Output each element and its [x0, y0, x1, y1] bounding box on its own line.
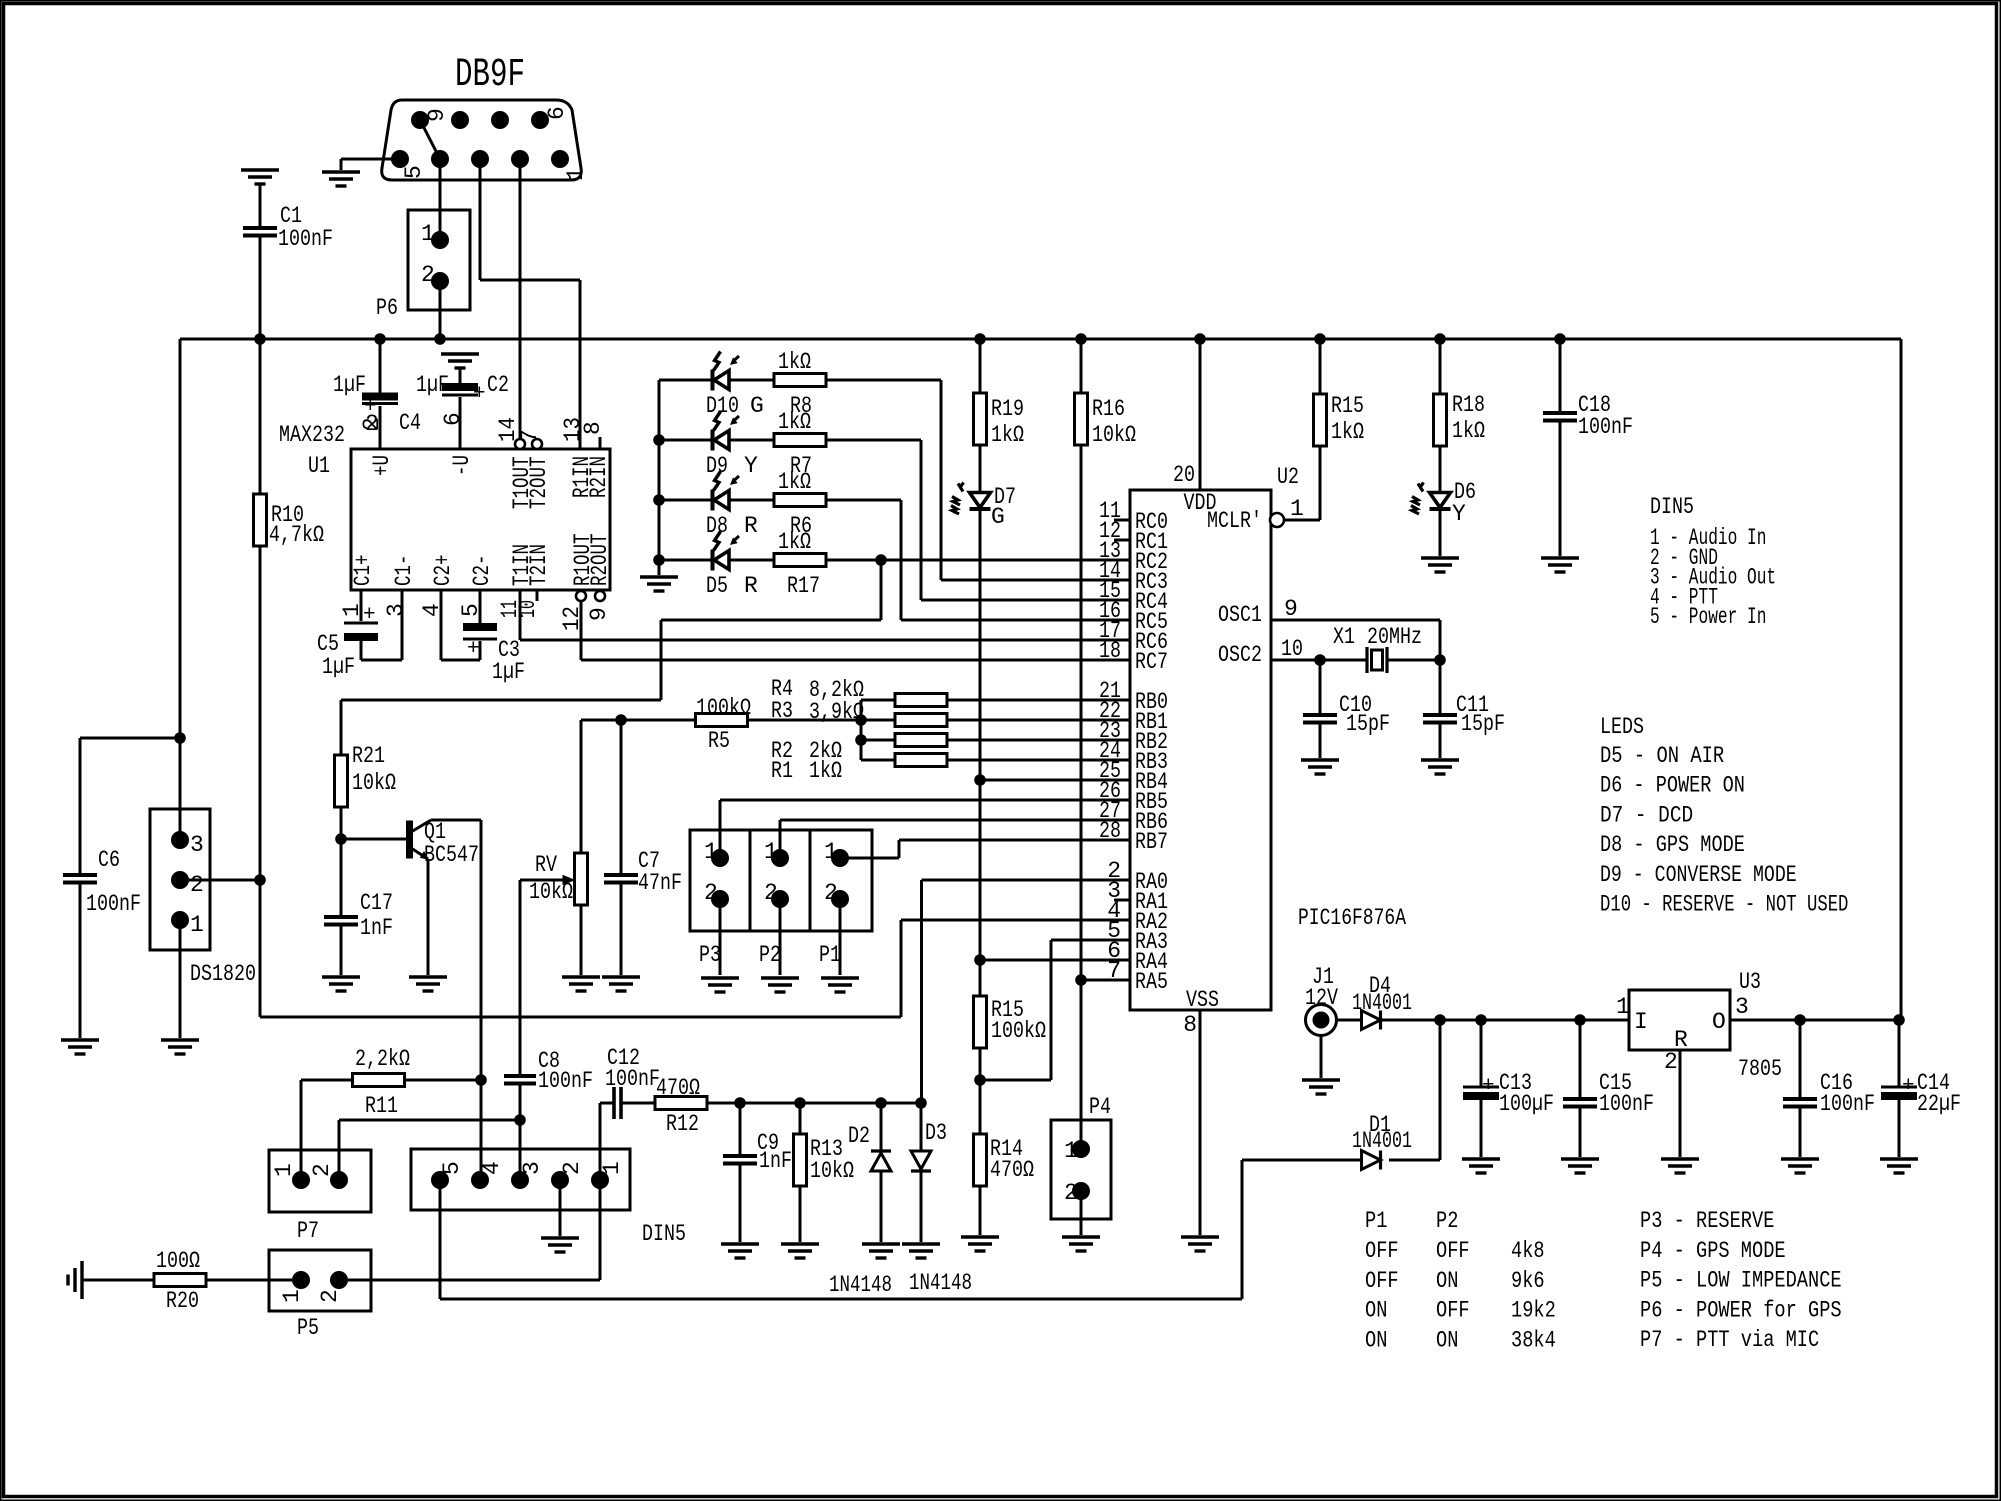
- svg-text:9: 9: [424, 108, 450, 122]
- svg-text:P1: P1: [1365, 1208, 1387, 1234]
- svg-text:8: 8: [580, 421, 606, 435]
- svg-text:1µF: 1µF: [416, 372, 449, 398]
- svg-text:C2+: C2+: [430, 555, 456, 587]
- svg-text:100nF: 100nF: [86, 891, 141, 917]
- svg-text:P5 - LOW IMPEDANCE: P5 - LOW IMPEDANCE: [1640, 1268, 1842, 1294]
- svg-text:10: 10: [1281, 636, 1303, 662]
- svg-text:D6 - POWER ON: D6 - POWER ON: [1600, 773, 1745, 799]
- svg-text:OFF: OFF: [1365, 1238, 1399, 1264]
- svg-text:R6: R6: [790, 513, 812, 539]
- svg-text:O: O: [1712, 1009, 1726, 1035]
- svg-text:R3: R3: [771, 698, 793, 724]
- svg-text:D3: D3: [925, 1120, 947, 1146]
- svg-text:OFF: OFF: [1365, 1268, 1399, 1294]
- svg-text:C1-: C1-: [391, 555, 417, 587]
- svg-text:ON: ON: [1436, 1268, 1458, 1294]
- svg-text:+: +: [473, 383, 486, 406]
- svg-text:1N4148: 1N4148: [829, 1272, 892, 1298]
- svg-text:100µF: 100µF: [1499, 1091, 1554, 1117]
- svg-text:D9: D9: [706, 453, 728, 479]
- svg-text:D8 - GPS MODE: D8 - GPS MODE: [1600, 832, 1745, 858]
- svg-text:R7: R7: [790, 453, 812, 479]
- svg-text:DS1820: DS1820: [190, 961, 256, 987]
- svg-text:R12: R12: [666, 1111, 699, 1137]
- svg-text:1: 1: [1616, 994, 1630, 1020]
- svg-text:P4 - GPS MODE: P4 - GPS MODE: [1640, 1238, 1786, 1264]
- svg-text:3: 3: [1735, 994, 1749, 1020]
- svg-text:R15: R15: [1331, 393, 1364, 419]
- svg-text:28: 28: [1099, 818, 1121, 844]
- svg-text:+: +: [1482, 1075, 1495, 1098]
- svg-text:BC547: BC547: [424, 842, 479, 868]
- svg-text:U1: U1: [308, 453, 330, 479]
- svg-text:OSC2: OSC2: [1218, 642, 1262, 668]
- svg-text:470Ω: 470Ω: [990, 1157, 1034, 1183]
- svg-text:2: 2: [421, 262, 435, 288]
- svg-text:C6: C6: [98, 847, 120, 873]
- svg-text:D5 - ON AIR: D5 - ON AIR: [1600, 743, 1724, 769]
- svg-text:OFF: OFF: [1436, 1298, 1470, 1324]
- svg-text:1: 1: [190, 912, 204, 938]
- svg-text:38k4: 38k4: [1511, 1327, 1556, 1353]
- svg-text:C2-: C2-: [469, 555, 495, 587]
- svg-text:D10 - RESERVE - NOT USED: D10 - RESERVE - NOT USED: [1600, 892, 1848, 918]
- svg-text:20MHz: 20MHz: [1367, 624, 1422, 650]
- svg-text:RB7: RB7: [1135, 829, 1168, 855]
- svg-text:I: I: [1634, 1009, 1648, 1035]
- svg-text:2: 2: [764, 880, 778, 906]
- svg-text:OSC1: OSC1: [1218, 602, 1262, 628]
- svg-text:R1: R1: [771, 758, 793, 784]
- svg-text:9: 9: [1284, 596, 1298, 622]
- svg-text:1N4001: 1N4001: [1352, 1128, 1412, 1154]
- svg-text:R2OUT: R2OUT: [587, 534, 613, 587]
- svg-text:MAX232: MAX232: [279, 422, 345, 448]
- svg-text:2,2kΩ: 2,2kΩ: [355, 1046, 410, 1072]
- svg-text:P7: P7: [297, 1218, 319, 1244]
- svg-text:X1: X1: [1333, 624, 1355, 650]
- svg-text:3,9kΩ: 3,9kΩ: [809, 699, 864, 725]
- svg-text:47nF: 47nF: [638, 870, 682, 896]
- svg-text:10kΩ: 10kΩ: [1092, 422, 1136, 448]
- svg-text:MCLR': MCLR': [1207, 508, 1262, 534]
- svg-text:100Ω: 100Ω: [156, 1248, 200, 1274]
- svg-text:D10: D10: [706, 393, 739, 419]
- svg-text:6: 6: [544, 106, 570, 120]
- svg-text:5 - Power In: 5 - Power In: [1650, 604, 1766, 630]
- svg-text:1nF: 1nF: [759, 1148, 792, 1174]
- svg-text:PIC16F876A: PIC16F876A: [1298, 905, 1406, 931]
- svg-text:C2: C2: [487, 372, 509, 398]
- svg-text:100nF: 100nF: [1820, 1091, 1875, 1117]
- svg-text:470Ω: 470Ω: [656, 1075, 700, 1101]
- svg-text:R5: R5: [708, 728, 730, 754]
- svg-text:10kΩ: 10kΩ: [810, 1158, 854, 1184]
- svg-text:1µF: 1µF: [492, 659, 525, 685]
- svg-text:P3: P3: [699, 942, 721, 968]
- svg-text:12: 12: [559, 606, 585, 631]
- svg-text:9k6: 9k6: [1511, 1268, 1545, 1294]
- svg-text:100nF: 100nF: [1578, 414, 1633, 440]
- svg-text:2: 2: [824, 880, 838, 906]
- svg-text:5: 5: [458, 603, 484, 617]
- svg-text:P3 - RESERVE: P3 - RESERVE: [1640, 1208, 1774, 1234]
- svg-text:+: +: [467, 638, 480, 661]
- svg-text:10: 10: [515, 600, 541, 618]
- svg-text:1N4001: 1N4001: [1352, 990, 1412, 1016]
- svg-text:1: 1: [271, 1163, 297, 1177]
- svg-text:100nF: 100nF: [278, 226, 333, 252]
- svg-text:DB9F: DB9F: [455, 53, 525, 98]
- svg-text:1N4148: 1N4148: [909, 1270, 972, 1296]
- svg-text:100nF: 100nF: [538, 1068, 593, 1094]
- svg-text:2: 2: [190, 872, 204, 898]
- svg-text:D5: D5: [706, 573, 728, 599]
- svg-text:18: 18: [1099, 638, 1121, 664]
- svg-text:1: 1: [279, 1289, 305, 1303]
- svg-text:D2: D2: [848, 1123, 870, 1149]
- svg-text:R: R: [744, 513, 758, 539]
- svg-text:100nF: 100nF: [1599, 1091, 1654, 1117]
- svg-text:1: 1: [563, 167, 589, 181]
- svg-text:4: 4: [479, 1161, 505, 1175]
- svg-text:2: 2: [1064, 1180, 1078, 1206]
- svg-text:2: 2: [559, 1161, 585, 1175]
- svg-text:5: 5: [401, 165, 427, 179]
- svg-text:R11: R11: [365, 1093, 398, 1119]
- svg-text:1nF: 1nF: [360, 915, 393, 941]
- svg-text:R19: R19: [991, 396, 1024, 422]
- svg-text:C1+: C1+: [350, 555, 376, 587]
- svg-text:OFF: OFF: [1436, 1238, 1470, 1264]
- svg-text:1kΩ: 1kΩ: [809, 758, 842, 784]
- svg-text:G: G: [991, 504, 1005, 530]
- svg-text:2: 2: [704, 880, 718, 906]
- svg-text:R21: R21: [352, 743, 385, 769]
- svg-text:LEDS: LEDS: [1600, 714, 1644, 740]
- svg-text:7805: 7805: [1738, 1056, 1782, 1082]
- svg-text:8: 8: [1183, 1012, 1197, 1038]
- svg-text:10kΩ: 10kΩ: [352, 770, 396, 796]
- svg-text:RA5: RA5: [1135, 969, 1168, 995]
- svg-text:R2IN: R2IN: [586, 456, 612, 498]
- svg-text:1kΩ: 1kΩ: [1452, 418, 1485, 444]
- svg-text:T2OUT: T2OUT: [526, 457, 552, 510]
- svg-text:C17: C17: [360, 890, 393, 916]
- svg-text:4k8: 4k8: [1511, 1238, 1545, 1264]
- svg-text:12V: 12V: [1305, 985, 1338, 1011]
- svg-text:R: R: [744, 573, 758, 599]
- svg-text:RV: RV: [535, 852, 557, 878]
- svg-text:15pF: 15pF: [1346, 711, 1390, 737]
- svg-text:6: 6: [440, 412, 466, 426]
- svg-text:P6 - POWER for GPS: P6 - POWER for GPS: [1640, 1297, 1842, 1323]
- svg-text:1: 1: [1064, 1138, 1078, 1164]
- svg-text:D7 - DCD: D7 - DCD: [1600, 802, 1693, 828]
- svg-text:3: 3: [519, 1161, 545, 1175]
- svg-text:D9 - CONVERSE MODE: D9 - CONVERSE MODE: [1600, 862, 1797, 888]
- svg-text:P2: P2: [759, 942, 781, 968]
- svg-text:2: 2: [365, 411, 379, 437]
- svg-text:100kΩ: 100kΩ: [696, 695, 751, 721]
- svg-text:Y: Y: [744, 453, 758, 479]
- svg-text:9: 9: [586, 607, 612, 621]
- svg-text:Y: Y: [1452, 501, 1466, 527]
- svg-text:-U: -U: [449, 455, 475, 476]
- svg-text:2: 2: [309, 1163, 335, 1177]
- svg-text:1µF: 1µF: [322, 654, 355, 680]
- svg-text:P6: P6: [376, 295, 398, 321]
- svg-text:7: 7: [1107, 958, 1121, 984]
- svg-text:ON: ON: [1365, 1298, 1387, 1324]
- svg-text:G: G: [750, 393, 764, 419]
- svg-text:100nF: 100nF: [605, 1066, 660, 1092]
- svg-text:1: 1: [1290, 496, 1304, 522]
- svg-text:R17: R17: [787, 573, 820, 599]
- svg-text:P2: P2: [1436, 1208, 1458, 1234]
- svg-text:P1: P1: [819, 942, 841, 968]
- svg-text:2: 2: [317, 1289, 343, 1303]
- svg-text:ON: ON: [1365, 1327, 1387, 1353]
- svg-text:4,7kΩ: 4,7kΩ: [269, 522, 324, 548]
- svg-text:VSS: VSS: [1186, 987, 1219, 1013]
- svg-text:R8: R8: [790, 393, 812, 419]
- svg-text:5: 5: [439, 1161, 465, 1175]
- svg-text:R20: R20: [166, 1288, 199, 1314]
- svg-text:20: 20: [1173, 462, 1195, 488]
- svg-text:1: 1: [824, 839, 838, 865]
- svg-text:1kΩ: 1kΩ: [991, 422, 1024, 448]
- svg-text:D8: D8: [706, 513, 728, 539]
- svg-text:+U: +U: [369, 455, 395, 476]
- svg-text:P4: P4: [1089, 1094, 1111, 1120]
- svg-text:1kΩ: 1kΩ: [778, 349, 811, 375]
- svg-text:1: 1: [421, 221, 435, 247]
- svg-text:22µF: 22µF: [1917, 1091, 1961, 1117]
- svg-text:ON: ON: [1436, 1327, 1458, 1353]
- svg-text:P7 - PTT via MIC: P7 - PTT via MIC: [1640, 1327, 1819, 1353]
- svg-text:T2IN: T2IN: [526, 544, 552, 586]
- svg-text:15pF: 15pF: [1461, 711, 1505, 737]
- svg-text:U2: U2: [1277, 464, 1299, 490]
- svg-text:P5: P5: [297, 1315, 319, 1341]
- svg-text:1: 1: [339, 603, 365, 617]
- svg-text:U3: U3: [1739, 969, 1761, 995]
- svg-text:100kΩ: 100kΩ: [991, 1018, 1046, 1044]
- svg-text:3: 3: [383, 603, 409, 617]
- svg-text:2: 2: [1664, 1049, 1678, 1075]
- svg-text:R18: R18: [1452, 392, 1485, 418]
- svg-text:1: 1: [704, 839, 718, 865]
- svg-text:1: 1: [599, 1161, 625, 1175]
- svg-text:1kΩ: 1kΩ: [1331, 419, 1364, 445]
- svg-text:1µF: 1µF: [333, 372, 366, 398]
- svg-text:1: 1: [764, 839, 778, 865]
- svg-text:3: 3: [190, 832, 204, 858]
- svg-text:+: +: [1902, 1075, 1915, 1098]
- svg-text:R16: R16: [1092, 396, 1125, 422]
- svg-text:DIN5: DIN5: [642, 1221, 686, 1247]
- svg-text:RC7: RC7: [1135, 649, 1168, 675]
- svg-text:19k2: 19k2: [1511, 1298, 1556, 1324]
- svg-text:DIN5: DIN5: [1650, 494, 1694, 520]
- svg-text:C4: C4: [399, 410, 421, 436]
